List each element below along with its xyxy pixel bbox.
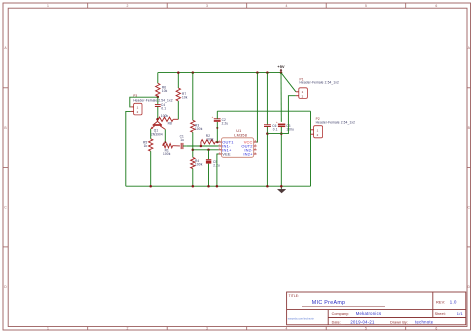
drawn-by value [415,320,434,325]
wire OUT1 to C2 [216,128,218,142]
label P2 [316,117,320,121]
label R7 [182,92,188,100]
svg-text:Drawn By:: Drawn By: [390,321,408,325]
sheet label [435,312,446,316]
label P1 [300,77,304,81]
svg-text:+: + [212,115,214,119]
svg-text:2: 2 [126,4,128,8]
wire R5 to ground rail [150,151,152,186]
svg-text:technote: technote [415,320,434,325]
svg-text:REV:: REV: [436,300,445,305]
date label [332,321,341,325]
sheet value [457,311,463,316]
header P3 box [134,103,142,115]
header P3 pin numbers [137,106,139,115]
svg-text:VEE: VEE [222,152,231,157]
wire Q1 collector to R1 [164,129,166,142]
svg-text:Mekatronics: Mekatronics [356,311,382,316]
wire ground bottom rail [126,185,311,187]
node bias junction [192,149,195,152]
capacitor C4 [155,97,161,119]
resistor R6 [156,83,160,96]
header P1 pin numbers [302,90,304,98]
resistor R1 [163,142,180,148]
label R6 [162,85,168,93]
resistor R8 [158,117,178,121]
svg-text:4: 4 [285,4,287,8]
label R1 [163,148,171,155]
label P1 value [300,81,340,85]
svg-text:2N3904: 2N3904 [151,133,163,137]
op-amp U1 box [221,138,253,158]
label R4 [195,159,203,167]
svg-text:IN2+: IN2+ [243,152,253,157]
header P2 box [314,126,323,138]
svg-text:0.1: 0.1 [273,128,278,132]
label C1 [180,135,184,142]
drawn-by underline [412,324,440,326]
label C6 [272,124,278,132]
capacitor C2 [212,111,221,128]
svg-text:1k: 1k [144,144,148,148]
drawn-by label [390,321,408,325]
svg-text:D: D [467,285,470,289]
header P2 pin stubs [311,130,314,134]
wire R7 to R8 [177,101,179,119]
date underline [345,324,379,326]
node VEE ground junction [216,185,219,188]
node Q1 base junction [156,118,159,121]
svg-text:3: 3 [206,4,208,8]
svg-text:D: D [4,285,7,289]
node rail VCC junction [256,71,259,74]
op-amp U1 pin numbers [219,140,257,154]
company value [356,311,382,316]
wire R3 to IN1+ row [192,132,194,157]
resistor R3 [191,120,195,132]
svg-text:100u: 100u [286,128,294,132]
svg-text:2: 2 [317,133,319,137]
date value [350,320,375,325]
svg-text:C: C [4,205,7,209]
svg-text:6: 6 [435,327,437,331]
title block outline [287,292,466,325]
node rail C6 junction [266,71,269,74]
label P2 value [316,120,356,124]
svg-text:MIC PreAmp: MIC PreAmp [312,300,346,306]
header P3 pin stubs [131,107,134,112]
wire +5V top rail [158,72,281,74]
svg-text:R8: R8 [168,122,172,126]
svg-text:+5V: +5V [277,65,285,69]
node C3 join junction [280,132,283,135]
node mic bias junction [157,96,160,99]
label C4 [161,103,166,110]
svg-text:1/1: 1/1 [457,311,463,316]
easyeda url [288,317,315,320]
svg-text:1: 1 [302,90,304,94]
svg-text:1u: 1u [180,138,184,142]
node OUT1 junction [216,141,219,144]
resistor R7 [176,88,180,101]
node collector bend [164,141,166,143]
capacitor C1 [181,143,186,149]
wire VEE to ground [217,154,219,186]
svg-text:Company:: Company: [332,312,350,316]
resistor R4 [191,157,195,168]
svg-text:5: 5 [365,4,367,8]
svg-text:Header-Female 2.54_1x2: Header-Female 2.54_1x2 [316,120,356,124]
capacitor C3 [276,73,285,187]
svg-text:10k: 10k [182,96,188,100]
svg-text:C: C [467,205,470,209]
svg-text:Header-Female 2.54_1x2: Header-Female 2.54_1x2 [133,99,173,103]
svg-text:2019-04-21: 2019-04-21 [350,320,375,325]
node rail R7 junction [177,71,180,74]
svg-text:2.2u: 2.2u [222,121,229,125]
op-amp U1 right pin names [241,140,253,157]
wire +5V to P1 [281,73,296,92]
svg-text:100k: 100k [163,152,171,156]
node C5 tap junction [207,149,210,152]
svg-text:2: 2 [126,327,128,331]
ground [277,186,285,193]
node C6 ground junction [266,185,269,188]
header P1 pin stubs [296,92,299,96]
title value MIC PreAmp [312,300,346,306]
header P2 pin numbers [317,128,319,137]
node rail +5V junction [280,71,283,74]
wire R4 to ground rail [192,169,194,187]
label R3 [195,124,203,132]
svg-text:Date:: Date: [332,321,341,325]
svg-text:1: 1 [317,128,319,132]
node C2 bend [216,127,218,129]
label R5 [143,140,147,148]
label C3 [286,124,294,132]
node C3 ground junction [280,185,283,188]
svg-text:1: 1 [47,4,49,8]
transistor Q1 [151,119,166,129]
wire output top [217,110,310,112]
rev value [450,300,457,305]
label R2 [206,134,214,141]
title block dividers [287,292,466,325]
wire IN1+ row [193,149,219,151]
rev label [436,300,445,305]
wire rail to R3 [192,73,194,121]
wire P1 pin2 to cap join [267,96,296,134]
title underline [302,305,385,307]
resistor R2 [201,140,219,146]
wire P3 pin1 to mic node [130,97,158,107]
svg-text:2: 2 [302,95,304,99]
svg-text:100k: 100k [161,114,169,118]
svg-text:Sheet:: Sheet: [435,312,446,316]
wire IN1- row [186,145,218,147]
op-amp U1 pin stubs [219,142,257,154]
label Q1 [151,129,163,137]
svg-text:1: 1 [47,327,49,331]
node R5 ground junction [149,185,152,188]
svg-text:6: 6 [435,4,437,8]
svg-text:100k: 100k [206,138,214,142]
svg-text:3: 3 [206,327,208,331]
wire rail to R7 [177,73,179,88]
svg-text:4: 4 [285,327,287,331]
svg-text:+: + [276,120,278,124]
label C5 [213,160,220,168]
label R8 [161,114,172,126]
capacitor C5 [206,150,211,186]
svg-text:Header-Female 2.54_1x2: Header-Female 2.54_1x2 [300,81,340,85]
company label [332,312,350,316]
label C2 [222,118,229,126]
svg-text:TITLE:: TITLE: [289,294,300,298]
wire rail to VCC [256,73,259,142]
svg-text:100k: 100k [195,163,203,167]
wire output down to rail [310,111,312,186]
svg-text:1.0: 1.0 [450,300,457,305]
op-amp U1 left pin names [222,140,234,157]
svg-text:LM358: LM358 [234,133,247,137]
resistor R5 [149,139,153,151]
power flag +5V [277,65,285,73]
title label [289,294,300,298]
node C5 ground junction [207,185,210,188]
svg-text:2: 2 [137,110,139,114]
label U1 [234,129,247,137]
label P3 value [133,99,173,103]
svg-text:0.1: 0.1 [161,107,166,111]
svg-text:easyeda.com/technote: easyeda.com/technote [288,317,315,320]
node rail R3 junction [192,71,195,74]
svg-text:5: 5 [365,327,367,331]
node R2 tap junction [200,145,203,148]
svg-text:10k: 10k [162,89,168,93]
label P3 [133,94,137,98]
header P1 box [299,88,308,99]
node C6 join junction [266,132,269,135]
capacitor C6 [264,73,271,187]
wire P3 pin2 to ground rail [126,111,131,186]
node R4 ground junction [192,185,195,188]
wire rail to R6 [157,73,159,84]
svg-text:100k: 100k [195,127,203,131]
wire Q1 emitter to R5 [150,129,152,139]
svg-text:1: 1 [137,106,139,110]
